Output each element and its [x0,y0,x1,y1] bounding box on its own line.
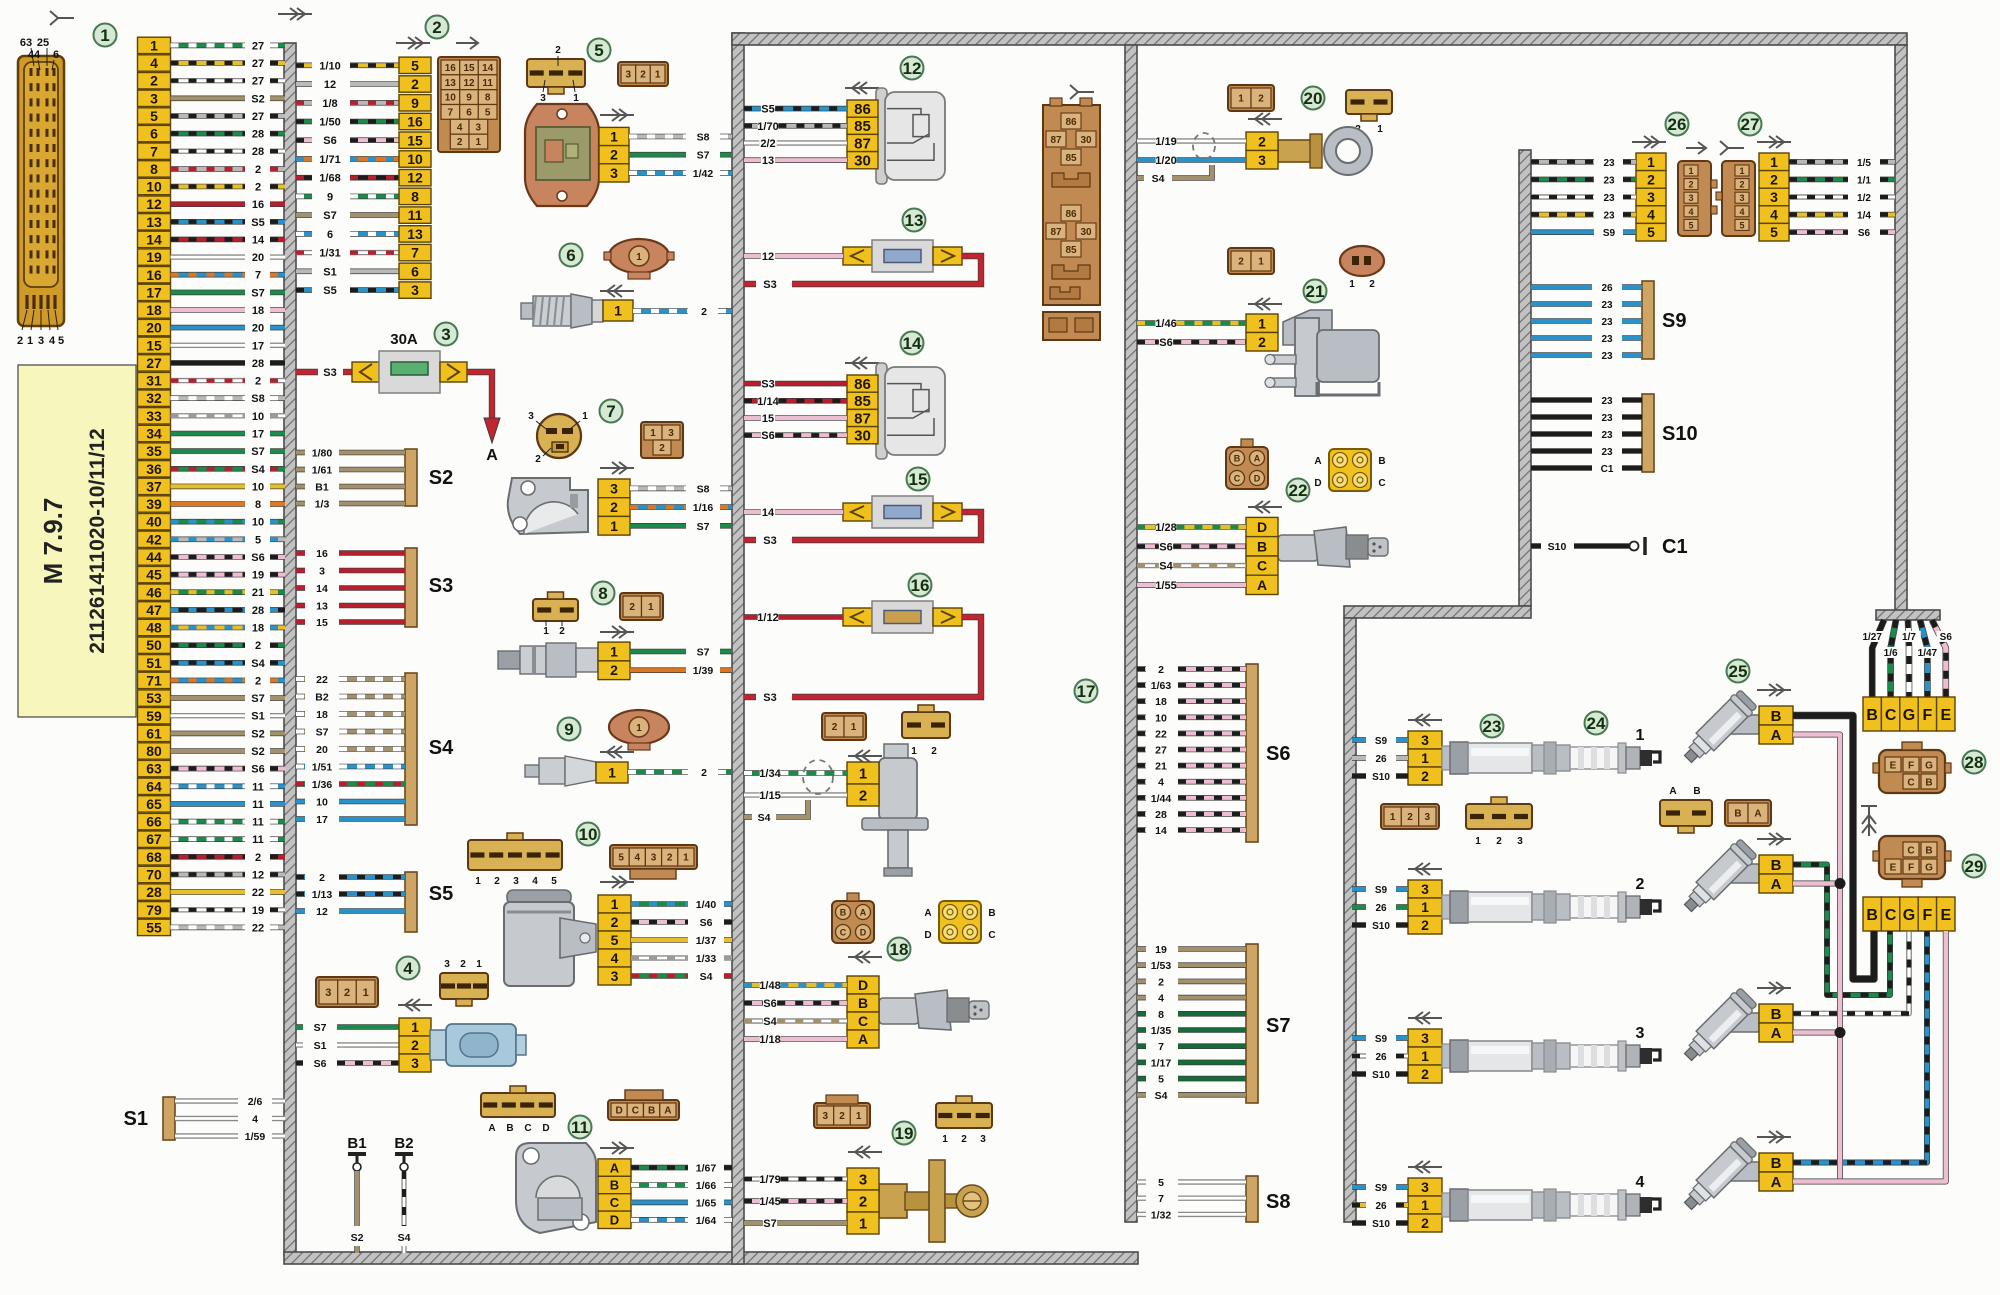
node 17 badge [1075,680,1098,703]
svg-text:3: 3 [319,566,325,578]
svg-text:A: A [924,908,931,919]
svg-text:2: 2 [610,662,618,678]
svg-text:B: B [1234,454,1241,464]
svg-text:S7: S7 [697,150,710,162]
ECU pin 8 wire 2 [138,161,286,177]
relay 12 pins [847,100,878,170]
svg-text:1: 1 [476,137,482,148]
svg-text:5: 5 [1158,1177,1164,1189]
svg-text:3: 3 [610,165,618,181]
svg-text:3: 3 [626,70,632,81]
connector X2 pin 16 wire 1/50 [296,113,431,129]
svg-text:12: 12 [146,196,162,212]
svg-text:2: 2 [555,45,561,56]
round connector icon for component 7 [537,414,581,458]
svg-text:1: 1 [859,765,867,782]
svg-text:A: A [858,1031,868,1047]
svg-text:D: D [1257,519,1267,535]
svg-text:S4: S4 [763,1016,777,1028]
svg-text:F: F [1923,707,1933,724]
svg-text:55: 55 [146,919,162,935]
svg-text:2: 2 [610,147,618,163]
svg-text:79: 79 [146,902,162,918]
svg-text:D: D [542,1123,549,1134]
svg-text:2: 2 [611,914,619,930]
arrow into component 9 [600,746,634,758]
ignition coil 2 pins and wires [1352,880,1442,934]
svg-text:16: 16 [252,199,264,211]
svg-text:35: 35 [146,443,162,459]
wire duct Z vertical upper [1519,150,1531,606]
svg-text:2: 2 [961,1134,967,1145]
svg-text:S3: S3 [429,575,453,597]
svg-text:S2: S2 [351,1232,364,1244]
svg-text:S6: S6 [251,552,264,564]
svg-text:1/18: 1/18 [759,1034,780,1046]
svg-text:24: 24 [1587,714,1606,733]
arrow into component 19 [848,1146,882,1158]
ECU connector X1 drawing [18,56,64,326]
svg-text:4: 4 [635,853,641,864]
ECU label M 7.9.7 [18,365,136,717]
arrow out above connector 2 [396,37,430,49]
svg-text:2: 2 [319,872,325,884]
svg-text:1/19: 1/19 [1155,136,1176,148]
svg-text:45: 45 [146,567,162,583]
svg-text:17: 17 [252,429,264,441]
ignition coil 1 arrow [1408,714,1442,726]
arrow into component 21 [1248,298,1282,310]
svg-text:5: 5 [1158,1074,1164,1086]
svg-text:11: 11 [482,78,493,89]
fuel injector 4 arrow [1757,1131,1791,1143]
svg-text:3: 3 [1688,193,1693,203]
svg-text:2: 2 [535,454,541,465]
component 20 wire S4 stub [1137,175,1144,181]
svg-text:1: 1 [648,602,654,613]
svg-text:7: 7 [448,108,454,119]
flat connector icon for component 4 [440,973,488,999]
svg-text:16: 16 [316,548,328,560]
terminal C1 wire [1531,536,1688,558]
svg-text:10: 10 [252,411,264,423]
svg-text:S1: S1 [314,1040,327,1052]
svg-text:S8: S8 [697,483,710,495]
svg-text:2: 2 [701,306,707,318]
svg-text:1/36: 1/36 [312,779,333,791]
svg-text:28: 28 [252,605,264,617]
svg-text:6: 6 [466,108,472,119]
component 20 pins and wires [1137,132,1278,169]
connector icon 29 [1879,836,1945,879]
svg-text:18: 18 [316,709,328,721]
svg-text:1/37: 1/37 [696,935,717,947]
svg-text:1/15: 1/15 [759,790,780,802]
connector X2 pin 13 wire 6 [296,226,431,242]
svg-text:1: 1 [611,896,619,912]
arrow out component 8 [600,626,634,638]
svg-text:28: 28 [252,358,264,370]
svg-text:4: 4 [252,1114,258,1126]
svg-text:23: 23 [1601,430,1613,441]
svg-text:C: C [1907,846,1914,857]
svg-text:A: A [1254,454,1261,464]
svg-text:2: 2 [255,852,261,864]
relay 14 body [876,363,945,459]
ignition coil 3 pins and wires [1352,1029,1442,1083]
ECU pin 61 wire S2 [138,725,286,741]
svg-text:71: 71 [146,673,162,689]
ECU pin 20 wire 20 [138,319,286,335]
node 18 badge [888,938,911,961]
svg-text:A: A [1257,577,1267,593]
svg-text:S4: S4 [1159,561,1173,573]
wire duct injector feed cap [1876,610,1940,620]
node 4 badge [397,957,420,980]
ECU pin 71 wire 2 [138,672,286,688]
svg-text:2: 2 [610,499,618,515]
svg-text:A: A [1669,786,1676,797]
svg-text:1: 1 [1636,727,1645,744]
svg-text:22: 22 [1155,728,1167,740]
connector X2 pin 8 wire 9 [296,188,431,204]
svg-text:2: 2 [1636,876,1645,893]
fuse 16 body [843,601,962,633]
svg-text:C1: C1 [1662,536,1688,558]
svg-text:S2: S2 [251,728,264,740]
svg-text:2: 2 [1496,836,1502,847]
svg-text:22: 22 [252,887,264,899]
component 22 pins and wires [1137,517,1278,594]
relay 12 wire 13 [744,157,761,163]
svg-text:2: 2 [1158,664,1164,676]
svg-text:C: C [1257,558,1267,574]
wire injector 2 B to connector C [1793,865,1890,996]
svg-text:6: 6 [411,263,419,279]
svg-text:D: D [860,928,867,938]
svg-text:11: 11 [252,781,264,793]
ECU pin 68 wire 2 [138,849,286,865]
svg-text:1: 1 [475,876,481,887]
svg-text:2: 2 [255,640,261,652]
arrow symbol right of connector 2 [456,37,478,49]
svg-text:1: 1 [573,93,579,104]
ignition coil 3 body [1442,1040,1570,1072]
ECU pin 59 wire S1 [138,708,286,724]
fuel injector harness connector top B-C-G-F-E [1863,697,1955,731]
svg-text:1/55: 1/55 [1155,580,1176,592]
svg-text:2: 2 [839,1111,845,1122]
svg-text:1: 1 [582,411,588,422]
ignition coil 2 arrow [1408,863,1442,875]
svg-text:10: 10 [316,797,328,809]
component 7 throttle position sensor drawing [508,478,588,534]
fuse 13 feed wire 12 [744,253,761,259]
svg-text:A: A [1771,876,1782,893]
ECU pin 37 wire 10 [138,478,286,494]
svg-text:S9: S9 [1375,736,1388,747]
svg-text:B2: B2 [394,1135,413,1152]
svg-text:1/12: 1/12 [757,612,778,624]
svg-text:B: B [1925,778,1932,789]
svg-text:C: C [1885,907,1897,924]
svg-text:6: 6 [327,229,333,241]
svg-text:A: A [486,447,498,464]
svg-text:S7: S7 [1266,1015,1290,1037]
svg-text:3: 3 [1770,189,1778,205]
svg-text:2: 2 [859,1193,867,1210]
svg-text:C: C [632,1106,639,1117]
node 16 badge [909,574,932,597]
fuse 16 feed wire 1/12 [744,614,758,620]
svg-text:5: 5 [551,876,557,887]
svg-text:1/3: 1/3 [315,499,330,511]
svg-text:11: 11 [252,799,264,811]
svg-text:C: C [1234,474,1241,484]
svg-text:C: C [610,1195,620,1210]
ECU pin 2 wire 27 [138,73,286,89]
svg-text:22: 22 [316,674,328,686]
svg-text:26: 26 [1601,283,1613,294]
component 17 wire S4 stub [744,814,752,820]
fuel injector 2 body [1727,864,1759,883]
flat connector icon for component 11 [481,1093,555,1117]
svg-text:A: A [664,1106,671,1117]
connector S5 block [296,872,453,932]
svg-text:211261411020-10/11/12: 211261411020-10/11/12 [86,428,109,653]
svg-text:28: 28 [146,884,162,900]
ECU pin 63 wire S6 [138,760,286,776]
svg-text:1/39: 1/39 [693,665,714,677]
round 4-pin connector icon for component 18 [939,901,981,943]
svg-text:S5: S5 [429,883,453,905]
svg-text:87: 87 [854,410,871,427]
svg-text:4: 4 [611,950,619,966]
connector S9 block [1531,281,1686,362]
spark plug 3 [1570,1025,1660,1071]
fuel injector 1 pins B A [1759,706,1793,725]
svg-text:26: 26 [1668,115,1687,134]
connector icon D-C-B-A for component 11 [608,1100,679,1120]
svg-text:5: 5 [611,932,619,948]
svg-text:S8: S8 [697,132,710,144]
svg-text:7: 7 [255,270,261,282]
component 19 speed sensor drawing [879,1160,988,1242]
svg-text:2: 2 [344,987,350,999]
svg-text:1/16: 1/16 [693,502,714,514]
ECU pin 47 wire 28 [138,602,286,618]
ECU pin 39 wire 8 [138,496,286,512]
svg-text:48: 48 [146,620,162,636]
component 11 ignition module drawing [516,1143,596,1233]
connector X2 pin 7 wire 1/31 [296,244,431,260]
ECU pin 28 wire 22 [138,884,286,900]
flat connector icon for component 20 [1346,90,1392,114]
ECU pin 16 wire 7 [138,267,286,283]
svg-text:1/13: 1/13 [312,889,333,901]
svg-text:29: 29 [1965,857,1984,876]
svg-text:C: C [988,930,995,941]
ECU pin 6 wire 28 [138,125,286,141]
svg-text:21: 21 [252,587,264,599]
ECU pin 70 wire 12 [138,866,286,882]
connector icon A-B for injectors [1660,800,1712,826]
svg-text:27: 27 [146,355,162,371]
ECU pin 13 wire S5 [138,214,286,230]
svg-text:1: 1 [650,428,656,439]
ECU pin 4 wire 27 [138,55,286,71]
svg-text:28: 28 [1965,753,1984,772]
svg-text:B1: B1 [315,482,329,494]
svg-text:1/64: 1/64 [696,1215,717,1227]
svg-text:23: 23 [1601,413,1613,424]
ignition coil 4 body [1442,1189,1570,1221]
wire duct Z horizontal [1344,606,1531,618]
ECU pin 15 wire 17 [138,337,286,353]
svg-text:66: 66 [146,814,162,830]
svg-text:15: 15 [316,617,328,629]
fuel injector 1 body [1727,715,1759,734]
svg-text:14: 14 [1155,825,1167,837]
svg-text:4: 4 [1739,207,1744,217]
fuse 15 body [843,496,962,528]
svg-text:1: 1 [911,746,917,757]
svg-text:25: 25 [37,37,49,49]
svg-text:4: 4 [457,122,463,133]
svg-text:19: 19 [1155,944,1167,956]
connector X2 pin 9 wire 1/8 [296,95,431,111]
connector X2 pin 12 wire 1/68 [296,170,431,186]
svg-text:85: 85 [854,118,871,135]
svg-text:30: 30 [1080,135,1092,146]
svg-text:S10: S10 [1372,1070,1390,1081]
svg-text:19: 19 [146,249,162,265]
svg-text:1/10: 1/10 [319,60,340,72]
svg-text:86: 86 [854,376,871,393]
svg-text:1/59: 1/59 [245,1131,266,1143]
svg-text:16: 16 [407,114,423,130]
svg-text:17: 17 [316,814,328,826]
svg-text:10: 10 [445,93,457,104]
svg-text:28: 28 [252,129,264,141]
svg-text:B: B [840,908,847,918]
svg-text:F: F [1908,761,1914,772]
wire duct Z vertical lower [1344,618,1356,1222]
svg-text:17: 17 [146,284,162,300]
svg-text:4: 4 [1636,1174,1645,1191]
svg-text:A: A [1771,727,1782,744]
svg-text:1: 1 [476,959,482,970]
svg-text:3: 3 [651,853,657,864]
svg-text:S4: S4 [1152,173,1165,185]
svg-text:5: 5 [485,108,491,119]
fuel injector harness connector bottom B-C-G-F-E [1863,897,1955,931]
svg-text:3: 3 [1421,1030,1429,1046]
svg-text:1: 1 [150,37,158,53]
svg-text:S4: S4 [700,971,713,983]
connector 27 pins and wires [1759,153,1895,241]
relay 14 wire S6 [744,432,761,438]
arrow into component 6 [600,285,634,297]
svg-text:S6: S6 [700,917,713,929]
component 22 oxygen sensor drawing [1278,527,1388,567]
component 8 pins and wires [598,642,732,680]
ECU pin 3 wire S2 [138,90,286,106]
svg-text:4: 4 [1770,207,1778,223]
svg-text:33: 33 [146,408,162,424]
svg-text:14: 14 [316,583,328,595]
ECU pin 44 wire S6 [138,549,286,565]
svg-text:23: 23 [1601,334,1613,345]
svg-text:20: 20 [252,252,264,264]
svg-text:8: 8 [1158,1009,1164,1021]
svg-text:1/44: 1/44 [1151,793,1172,805]
svg-text:S10: S10 [1548,541,1567,553]
connector icon B-A for injectors [1725,800,1771,826]
svg-text:D: D [1314,478,1321,489]
ECU pin 32 wire S8 [138,390,286,406]
svg-text:F: F [1923,907,1933,924]
svg-text:3: 3 [610,480,618,496]
relay 12 body [876,88,945,184]
svg-text:5: 5 [411,57,419,73]
svg-text:23: 23 [1601,300,1613,311]
svg-text:S7: S7 [251,446,264,458]
svg-text:2: 2 [1421,1215,1429,1231]
svg-text:B: B [858,995,868,1011]
svg-text:C: C [524,1123,531,1134]
svg-text:30: 30 [854,153,871,170]
svg-text:5: 5 [594,41,603,60]
node 13 badge [903,209,926,232]
svg-text:2: 2 [701,767,707,779]
node 10 badge [577,823,600,846]
node 29 badge [1963,855,1986,878]
svg-text:B: B [1925,846,1932,857]
svg-text:B: B [1866,707,1878,724]
svg-text:S9: S9 [1603,228,1616,239]
svg-text:B2: B2 [315,692,329,704]
svg-text:11: 11 [571,1118,589,1137]
svg-text:18: 18 [890,940,909,959]
svg-text:2: 2 [460,959,466,970]
connector X2 pin 6 wire S1 [296,263,431,279]
svg-text:S8: S8 [1266,1191,1290,1213]
fuel injector 4 body [1727,1162,1759,1181]
fuel injector 4 pins B A [1759,1153,1793,1172]
shield terminal B1 [347,1135,366,1253]
svg-text:S9: S9 [1375,885,1388,896]
svg-text:10: 10 [1155,712,1167,724]
svg-text:S6: S6 [1159,337,1172,349]
svg-text:22: 22 [252,922,264,934]
svg-text:8: 8 [255,499,261,511]
svg-text:S9: S9 [1662,310,1686,332]
svg-text:25: 25 [1729,662,1748,681]
ignition coil 4 pins and wires [1352,1178,1442,1232]
svg-text:3: 3 [444,959,450,970]
svg-text:2: 2 [1421,768,1429,784]
connector icon 1-2 for component 20 [1228,85,1274,111]
svg-text:1/79: 1/79 [759,1174,780,1186]
svg-text:1: 1 [1475,836,1481,847]
component 18 oxygen sensor drawing [879,990,989,1030]
ECU pin 79 wire 19 [138,902,286,918]
svg-text:44: 44 [28,49,41,61]
svg-text:2: 2 [255,376,261,388]
svg-text:39: 39 [146,496,162,512]
svg-text:1/4: 1/4 [1857,211,1871,222]
